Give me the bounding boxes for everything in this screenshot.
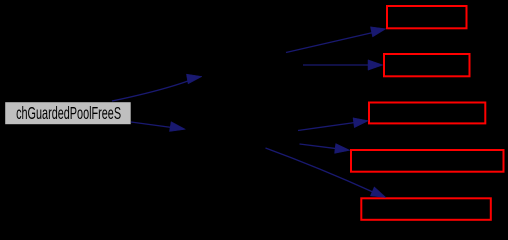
- svg-text:chGuardedPoolFreeS: chGuardedPoolFreeS: [16, 103, 121, 123]
